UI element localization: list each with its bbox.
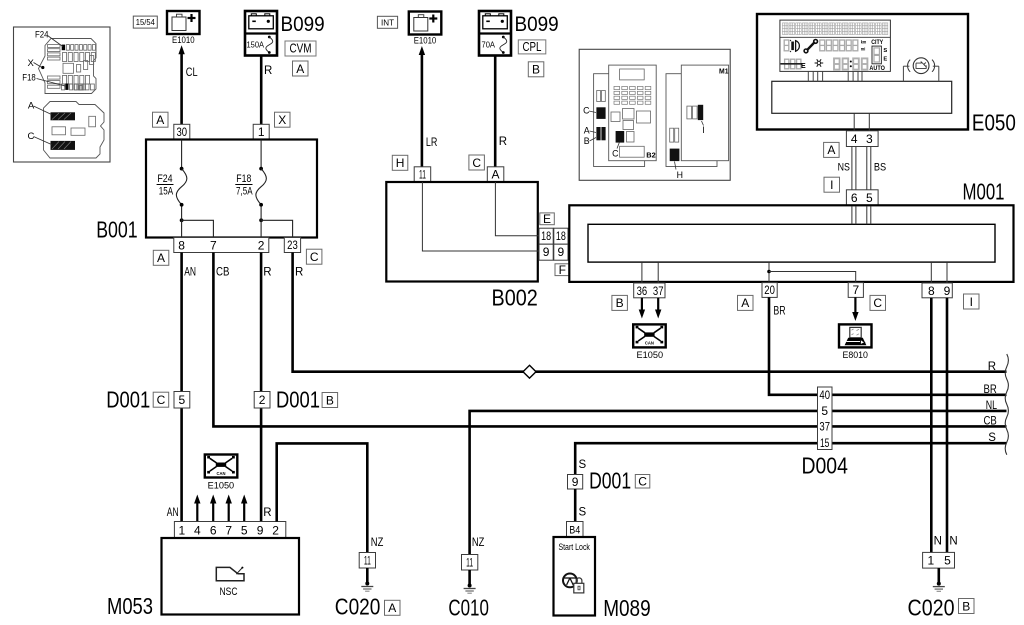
- ground symbol C020/B: [937, 568, 940, 583]
- connector code A (B001 pin 30): [153, 112, 169, 127]
- pin 11 (C020/A): [359, 553, 375, 569]
- svg-text:23: 23: [287, 238, 298, 252]
- fuse F24 highlighted: [62, 45, 65, 51]
- fuse box location inset: [14, 27, 111, 162]
- svg-text:9: 9: [944, 284, 951, 298]
- cluster lower bar: [772, 81, 952, 113]
- wires panel to lower bar: [807, 72, 809, 82]
- connector code A (M001 20): [738, 295, 754, 310]
- svg-text:F18: F18: [22, 72, 36, 83]
- svg-text:NL: NL: [986, 400, 998, 412]
- svg-text:E8010: E8010: [842, 350, 868, 360]
- svg-text:S: S: [579, 507, 587, 519]
- svg-text:I: I: [830, 178, 833, 192]
- wire NL: C010 to D004 pin 5: [470, 411, 818, 555]
- connector code A (CVM): [293, 61, 309, 76]
- svg-text:8: 8: [178, 238, 185, 252]
- label CVM: [285, 41, 316, 56]
- svg-text:A: A: [157, 251, 165, 265]
- svg-text:11: 11: [364, 553, 371, 567]
- connectors A and B highlighted: [596, 127, 600, 140]
- svg-text:9: 9: [543, 245, 550, 259]
- svg-text:A: A: [584, 126, 590, 136]
- svg-text:5: 5: [241, 523, 248, 537]
- connector code A (B001 bottom): [153, 250, 169, 265]
- svg-text:9: 9: [257, 523, 264, 537]
- svg-text:2: 2: [259, 393, 266, 407]
- svg-text:B: B: [532, 63, 540, 77]
- connector code I (M001 8/9): [964, 294, 980, 309]
- six segment digits: [820, 40, 858, 51]
- wire R from B099/2 to B002 pin A: [494, 56, 497, 167]
- svg-text:7,5A: 7,5A: [236, 186, 253, 198]
- battery positive terminal E1010 (2): [409, 12, 442, 35]
- svg-text:R: R: [988, 361, 996, 373]
- svg-text:NS: NS: [838, 161, 850, 173]
- connector D004: [818, 387, 833, 450]
- svg-text:N: N: [949, 536, 957, 548]
- svg-text:CITY: CITY: [871, 39, 884, 46]
- svg-text:C020: C020: [908, 594, 955, 620]
- svg-text:M001: M001: [963, 178, 1005, 204]
- connector code C (B002 pin A): [469, 155, 485, 170]
- svg-text:E: E: [801, 63, 806, 70]
- fuse box B001: [146, 140, 317, 238]
- svg-text:2: 2: [258, 238, 265, 252]
- svg-text:Start Lock: Start Lock: [558, 542, 590, 552]
- dot matrix row: [782, 23, 788, 35]
- svg-text:B4: B4: [569, 524, 580, 536]
- svg-text:11: 11: [466, 555, 473, 569]
- svg-text:F24: F24: [157, 173, 172, 185]
- ground symbol C020/A: [366, 568, 369, 583]
- headlight telltale: [796, 41, 800, 52]
- pin 23: [284, 238, 300, 253]
- label INT: [377, 16, 397, 28]
- svg-text:D001: D001: [276, 386, 320, 412]
- svg-text:15A: 15A: [159, 186, 174, 198]
- svg-text:2: 2: [272, 523, 279, 537]
- connector code C (B001 pin 23): [306, 249, 322, 264]
- wire S: M089 to D004 pin 15: [575, 443, 817, 474]
- wire LR with up arrow: [421, 53, 424, 167]
- svg-text:B: B: [616, 296, 624, 310]
- fuel pump sender symbol: [913, 58, 929, 74]
- svg-text:B099: B099: [515, 12, 559, 36]
- steering lock icon: [563, 574, 577, 588]
- connector code I (M001 top): [824, 177, 840, 192]
- connector A highlighted: [51, 112, 76, 120]
- svg-text:6: 6: [851, 191, 858, 205]
- svg-text:C010: C010: [448, 594, 489, 620]
- svg-text:15/54: 15/54: [136, 17, 155, 27]
- svg-text:C: C: [612, 149, 619, 159]
- svg-text:M089: M089: [603, 595, 651, 621]
- svg-text:E1050: E1050: [637, 350, 664, 360]
- svg-text:9: 9: [572, 475, 579, 489]
- svg-text:D004: D004: [802, 453, 849, 479]
- pin 20 (M001): [762, 283, 777, 298]
- svg-text:mi: mi: [861, 47, 866, 52]
- connector code X: [275, 112, 291, 127]
- fuse 150A squiggle: [268, 36, 271, 39]
- temp gauge segments: [785, 59, 801, 69]
- connector C highlighted: [51, 141, 76, 150]
- svg-text:C: C: [157, 393, 166, 407]
- svg-text:9: 9: [558, 245, 565, 259]
- svg-text:F24: F24: [35, 29, 49, 40]
- svg-text:B001: B001: [96, 216, 138, 242]
- svg-text:X: X: [28, 58, 35, 69]
- svg-text:A: A: [156, 113, 164, 127]
- splice diamond on wire R: [523, 365, 536, 378]
- svg-text:4: 4: [851, 132, 858, 146]
- svg-text:H: H: [396, 156, 405, 170]
- pin 1 (B001): [253, 124, 269, 139]
- battery B099 (2): [479, 11, 511, 56]
- gear indicator: [872, 46, 881, 64]
- connector code H (B002 pin 11): [392, 155, 408, 170]
- svg-text:B: B: [962, 599, 970, 613]
- svg-text:S: S: [988, 432, 996, 444]
- svg-text:B099: B099: [281, 12, 325, 36]
- svg-text:1: 1: [258, 125, 265, 139]
- svg-text:3: 3: [866, 132, 873, 146]
- svg-text:B2: B2: [646, 151, 656, 160]
- label 15/54: [133, 16, 157, 28]
- internal wire pin11 to pin 9: [422, 182, 539, 251]
- svg-text:E1010: E1010: [172, 35, 195, 45]
- wire AN: B001 pin8 to D001/C pin5 to M053 pin1: [180, 253, 183, 393]
- connector code B (M001 36/37): [612, 295, 628, 310]
- M001 inner board: [588, 224, 995, 262]
- svg-text:R: R: [295, 267, 303, 279]
- svg-text:BR: BR: [773, 305, 785, 317]
- svg-text:AUTO: AUTO: [869, 65, 885, 72]
- svg-text:1: 1: [928, 554, 935, 568]
- wire R: B001 pin23 right to edge: [293, 253, 1007, 372]
- body computer B002: [386, 182, 538, 282]
- svg-text:M1: M1: [719, 67, 729, 76]
- svg-text:A: A: [492, 168, 500, 182]
- svg-text:F: F: [559, 263, 566, 277]
- relay box location inset: [579, 49, 730, 180]
- svg-text:1: 1: [178, 523, 185, 537]
- svg-text:C: C: [472, 156, 481, 170]
- control unit M053 box: [162, 538, 300, 615]
- svg-text:37: 37: [653, 284, 664, 298]
- pin 9 D001 way C (M089): [568, 475, 583, 490]
- svg-text:D001: D001: [589, 467, 631, 493]
- svg-text:CB: CB: [984, 415, 998, 427]
- svg-text:37: 37: [819, 419, 830, 433]
- svg-text:I: I: [702, 125, 704, 135]
- svg-text:CPL: CPL: [523, 40, 542, 54]
- wire BR: M001 pin20 to D004 pin 40: [769, 297, 818, 394]
- svg-text:BR: BR: [984, 384, 997, 396]
- connector C highlighted (left flap): [596, 107, 605, 119]
- internal wire pinA to pin 18: [495, 182, 539, 236]
- svg-text:150A: 150A: [247, 40, 265, 50]
- ground symbol C010: [468, 570, 471, 585]
- CAN node E1050 (2): [205, 455, 238, 478]
- svg-text:B002: B002: [492, 285, 538, 311]
- svg-text:7: 7: [225, 523, 232, 537]
- twisted pair inside M001: [851, 206, 853, 224]
- svg-text:X: X: [278, 113, 286, 127]
- connector D001 way B pin 2: [254, 392, 270, 409]
- pins 4 3 (E050): [846, 131, 878, 147]
- arrows pins 36 37 down to CAN: [641, 298, 643, 312]
- diagnostic tester E8010: [839, 324, 872, 347]
- relay C highlighted (B2 panel): [616, 131, 625, 143]
- svg-text:E1010: E1010: [414, 36, 437, 46]
- connector H highlighted (right flap): [670, 149, 680, 162]
- NSC horn symbol: [216, 567, 244, 580]
- svg-text:B: B: [584, 136, 590, 146]
- connector code B (CPL): [528, 62, 544, 77]
- svg-text:CB: CB: [216, 267, 230, 279]
- connector code A (E050): [824, 142, 840, 157]
- svg-text:70A: 70A: [482, 40, 496, 50]
- pin 11 (C010): [462, 555, 478, 571]
- svg-text:15: 15: [820, 436, 830, 450]
- wire R from B099 to B001 pin 1: [260, 56, 263, 125]
- second row telltales: [784, 40, 789, 51]
- svg-text:C: C: [583, 106, 590, 116]
- svg-text:NZ: NZ: [371, 537, 384, 549]
- svg-text:C: C: [873, 296, 882, 310]
- clock digits 88:88: [834, 58, 867, 69]
- svg-text:A: A: [827, 143, 835, 157]
- svg-text:C: C: [310, 250, 319, 264]
- instrument cluster E050: [757, 14, 968, 130]
- pin 30: [174, 124, 190, 139]
- fuse F18 7,5A inside B001: [260, 140, 262, 168]
- svg-text:5: 5: [866, 191, 873, 205]
- svg-text:5: 5: [821, 404, 828, 418]
- pin 7 (M001): [848, 283, 863, 298]
- pin B4 (M089): [567, 522, 584, 538]
- inset front panel M1: [681, 65, 728, 161]
- svg-text:R: R: [264, 65, 272, 77]
- twisted pair wires NS BS: [851, 147, 853, 191]
- svg-text:E1050: E1050: [208, 481, 235, 491]
- wires cluster to pins 4 3: [853, 113, 855, 131]
- svg-text:S: S: [883, 48, 887, 54]
- svg-text:CAN: CAN: [645, 341, 654, 346]
- svg-text:N: N: [934, 536, 942, 548]
- inset front panel B2: [609, 65, 657, 161]
- svg-text:D001: D001: [106, 386, 150, 412]
- wires board to pins 36 37: [641, 262, 643, 283]
- wire CB: B001 pin7 to D004 pin 37: [213, 253, 817, 427]
- svg-text:C020: C020: [335, 594, 381, 620]
- pins 8 9 (M001): [922, 283, 952, 298]
- inset right flap: [666, 74, 717, 167]
- svg-text:CL: CL: [186, 67, 198, 79]
- pins 6 5 (M001 top): [846, 190, 878, 206]
- B002/M001 interconnect pins E 18/18 9/9 F: [540, 213, 555, 225]
- svg-text:5: 5: [944, 554, 951, 568]
- body computer M001: [569, 205, 1013, 282]
- svg-text:11: 11: [419, 168, 426, 182]
- battery positive terminal E1010 (1): [167, 11, 200, 34]
- pin A (B002): [487, 167, 504, 182]
- svg-text:A: A: [296, 62, 304, 76]
- svg-text:C: C: [28, 131, 35, 142]
- svg-text:20: 20: [764, 283, 775, 297]
- battery B099 (1): [245, 11, 277, 56]
- svg-text:AN: AN: [167, 507, 179, 519]
- svg-text:F18: F18: [236, 173, 251, 185]
- svg-text:E: E: [543, 212, 551, 226]
- svg-text:S: S: [579, 459, 587, 471]
- svg-text:40: 40: [819, 388, 830, 402]
- wire board to pin 20 with branch to pin 7: [768, 262, 770, 283]
- connector code C (M001 7): [870, 295, 886, 310]
- relay I highlighted (M1 panel): [698, 105, 703, 120]
- pins 1 5 (C020/B): [923, 552, 955, 568]
- svg-text:36: 36: [637, 284, 648, 298]
- svg-text:6: 6: [210, 523, 217, 537]
- inset left flap: [594, 74, 645, 167]
- svg-text:BS: BS: [874, 161, 886, 173]
- CAN node E1050 (1): [633, 324, 666, 347]
- fuse 70A squiggle: [502, 36, 505, 39]
- B001 bottom pin strip 8 7 2: [174, 238, 269, 253]
- svg-text:CVM: CVM: [290, 42, 312, 56]
- display panel: [780, 20, 891, 71]
- svg-text:R: R: [499, 136, 507, 148]
- svg-text:R: R: [263, 267, 271, 279]
- svg-text:M053: M053: [107, 593, 153, 619]
- svg-text:30: 30: [177, 125, 188, 139]
- pin 11 (B002): [414, 167, 431, 182]
- label CPL: [518, 40, 546, 54]
- svg-text:18: 18: [556, 229, 566, 243]
- svg-text:A: A: [741, 296, 749, 310]
- svg-text:7: 7: [852, 283, 859, 297]
- wrench telltale: [807, 42, 815, 50]
- wire R: B001 pin2 to D001/B pin2 to M053 pin9: [260, 253, 263, 393]
- svg-text:E050: E050: [972, 110, 1016, 136]
- start lock unit M089: [554, 537, 596, 616]
- svg-text:B: B: [326, 393, 334, 407]
- M053 pin strip 1 4 6 7 5 9 2: [174, 522, 285, 539]
- fuse F24 15A inside B001: [181, 140, 183, 168]
- wire NZ: M053 pin2 to ground C020/A: [277, 443, 368, 552]
- pins 36 37 (M001): [634, 283, 665, 298]
- svg-text:18: 18: [541, 229, 551, 243]
- wire S pin9 to B4: [574, 489, 577, 522]
- fuse F18 highlighted: [65, 84, 68, 90]
- sun symbol: [815, 59, 824, 66]
- svg-text:INT: INT: [381, 17, 395, 27]
- svg-text:7: 7: [210, 238, 217, 252]
- svg-text:8: 8: [928, 284, 935, 298]
- svg-text:CAN: CAN: [217, 471, 226, 476]
- svg-text:C: C: [638, 475, 647, 489]
- lower connector outline: [44, 102, 105, 159]
- svg-text:5: 5: [179, 393, 186, 407]
- svg-text:NZ: NZ: [472, 537, 485, 549]
- wires D004 to right edge: [832, 393, 1007, 396]
- arrows M053 pins 4 6 7 5 up to CAN: [196, 502, 198, 522]
- svg-text:km: km: [861, 40, 867, 45]
- svg-text:I: I: [970, 295, 973, 309]
- svg-text:AN: AN: [184, 267, 196, 279]
- wire CL with up arrow: [180, 52, 183, 124]
- svg-text:A: A: [388, 601, 396, 615]
- branch to pin 23: [261, 220, 293, 237]
- svg-text:LR: LR: [426, 137, 438, 149]
- svg-text:H: H: [677, 170, 683, 180]
- svg-text:E: E: [883, 57, 887, 63]
- arrow pin 7 down to diagnostic: [854, 297, 856, 314]
- svg-text:NSC: NSC: [220, 586, 238, 598]
- svg-text:R: R: [263, 507, 271, 519]
- branch to pin 7: [182, 220, 214, 237]
- wires interconnect to M001 inner board: [568, 235, 590, 237]
- continuation squiggle right edge: [1005, 354, 1008, 455]
- svg-text:4: 4: [194, 523, 201, 537]
- wires N N from M001 pins 8 9: [930, 298, 933, 553]
- wires board to pins 8 9: [930, 262, 932, 283]
